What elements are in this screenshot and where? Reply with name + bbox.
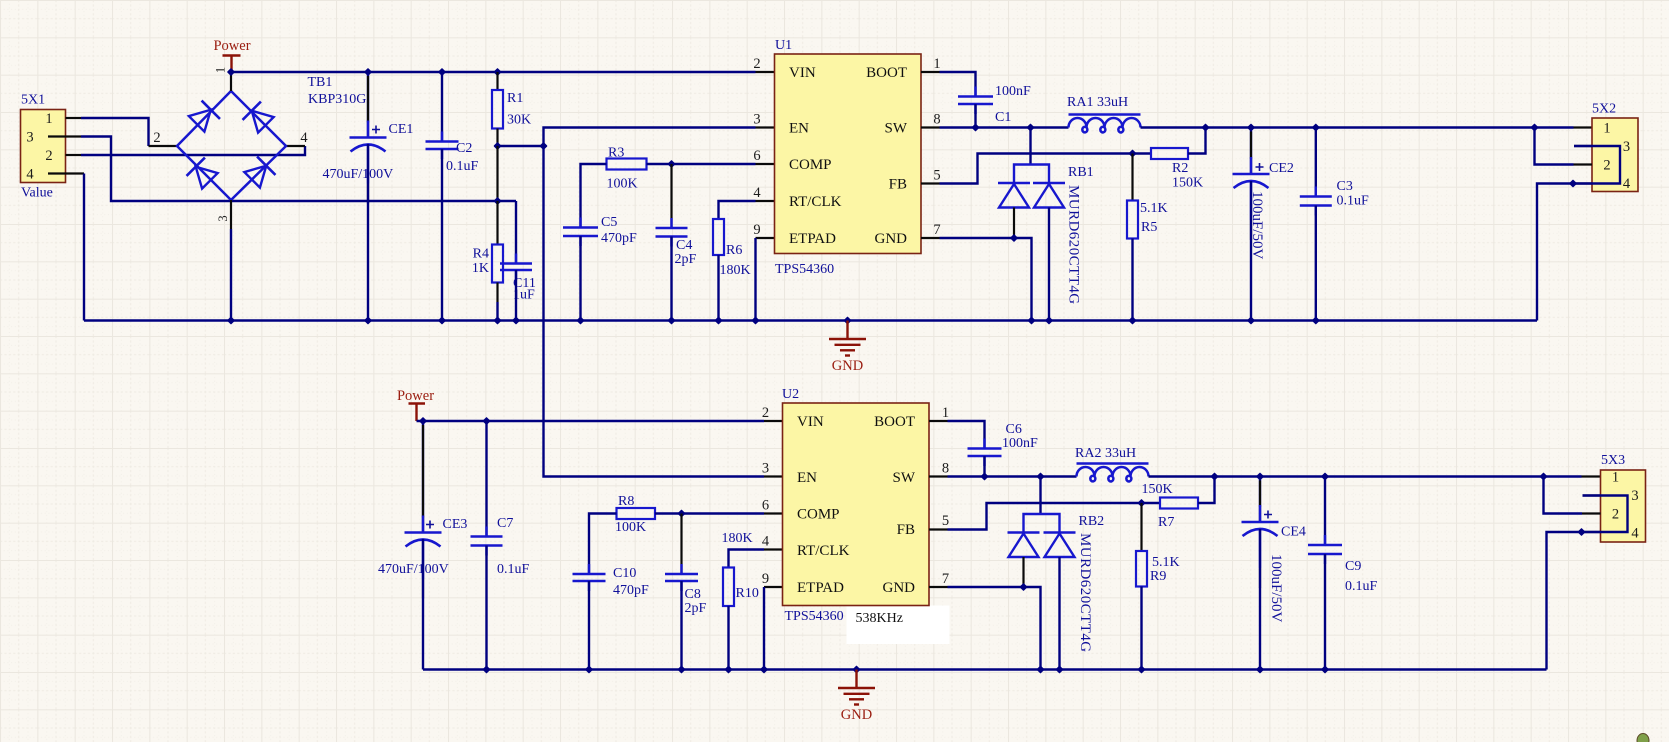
- pin R5.1: [1131, 154, 1133, 201]
- dual diode RB2 bracket: [1024, 514, 1060, 533]
- junction ground rail 2 / CE4: [1256, 665, 1264, 673]
- polarized capacitor plates CE1: [350, 136, 387, 139]
- wire VOUT2 to CE4: [1259, 477, 1261, 523]
- junction ground rail / TB1.3: [227, 316, 235, 324]
- pin R4.1: [496, 201, 498, 245]
- svg-text:C7: C7: [497, 516, 513, 531]
- resistor body R3: [607, 159, 647, 170]
- junction FB2/R9: [1137, 499, 1145, 507]
- svg-text:1: 1: [1612, 470, 1619, 486]
- svg-text:3: 3: [26, 130, 33, 146]
- svg-text:C1: C1: [995, 110, 1011, 125]
- junction VOUT2/C9: [1321, 472, 1329, 480]
- junction ground rail / U1 GND: [1027, 316, 1035, 324]
- svg-text:CE4: CE4: [1281, 525, 1306, 540]
- CE2 plus sign: [1256, 163, 1264, 171]
- wire R5 to ground rail: [1131, 239, 1133, 321]
- junction ground rail 2 / RB2: [1055, 665, 1063, 673]
- svg-text:C2: C2: [456, 141, 472, 156]
- svg-text:ETPAD: ETPAD: [789, 231, 836, 247]
- svg-text:3: 3: [216, 215, 230, 221]
- junction VOUT/C3: [1312, 123, 1320, 131]
- svg-text:470pF: 470pF: [601, 231, 637, 246]
- svg-text:RB1: RB1: [1068, 165, 1094, 180]
- pin U2.4 RT/CLK: [764, 548, 783, 550]
- wire VOUT to C3: [1315, 128, 1317, 197]
- junction ground rail 2 / R10: [724, 665, 732, 673]
- svg-text:5: 5: [933, 168, 940, 184]
- connector 5X2: [1592, 118, 1638, 192]
- junction ground rail / R5: [1128, 316, 1136, 324]
- pin 5X3.3: [1583, 494, 1601, 496]
- junction ground rail 2 / ETPAD2: [760, 665, 768, 673]
- junction FB/R5: [1128, 149, 1136, 157]
- inductor body RA2: [1077, 467, 1149, 481]
- svg-text:C6: C6: [1006, 422, 1022, 437]
- capacitor plates C11: [500, 264, 532, 271]
- wire R7 to VOUT2 rail: [1198, 477, 1215, 504]
- op-amp U1 body (TPS54360): [775, 54, 922, 254]
- pin 5X3.1: [1582, 475, 1601, 477]
- svg-text:C3: C3: [1337, 179, 1353, 194]
- pin U2.6 COMP: [764, 512, 783, 514]
- svg-text:5X3: 5X3: [1601, 453, 1625, 468]
- wire C2 to ground rail: [441, 149, 443, 321]
- junction rail to CE1: [364, 68, 372, 76]
- svg-text:3: 3: [1631, 488, 1638, 504]
- power symbol Power (top): [223, 56, 241, 73]
- resistor body R1: [492, 90, 503, 129]
- svg-text:MURD620CTT4G: MURD620CTT4G: [1077, 533, 1093, 653]
- wire COMP to C4: [670, 164, 672, 228]
- junction ground rail / C11: [512, 316, 520, 324]
- svg-text:3: 3: [753, 112, 760, 128]
- svg-text:Value: Value: [21, 186, 53, 201]
- wire C3 to ground rail: [1315, 206, 1317, 321]
- wire R10 to ground rail: [727, 606, 729, 670]
- junction SW/RB1: [1026, 123, 1034, 131]
- pin U2.9 ETPAD: [764, 586, 783, 588]
- wire C1 to SW rail: [974, 104, 976, 128]
- svg-text:CE1: CE1: [389, 122, 414, 137]
- svg-text:TB1: TB1: [308, 75, 333, 90]
- svg-text:4: 4: [1623, 176, 1631, 192]
- svg-text:7: 7: [942, 571, 949, 587]
- pin 5X2.1: [1574, 126, 1593, 128]
- junction ground rail / GND symbol: [843, 316, 851, 324]
- junction R1/EN: [493, 142, 501, 150]
- svg-text:C9: C9: [1345, 559, 1361, 574]
- svg-text:Power: Power: [397, 388, 434, 404]
- junction ground rail / ETPAD: [751, 316, 759, 324]
- svg-text:3: 3: [762, 461, 769, 477]
- svg-text:CE3: CE3: [443, 517, 468, 532]
- wire CE4 to ground rail: [1259, 529, 1261, 670]
- svg-text:1: 1: [933, 56, 940, 72]
- svg-text:4: 4: [1631, 526, 1639, 542]
- wire R1 to EN node: [498, 145, 544, 147]
- power symbol Power (bottom): [409, 404, 426, 422]
- junction ground rail / R6: [714, 316, 722, 324]
- wire VOUT rail right of RA2: [1149, 475, 1582, 477]
- junction 5X3.4: [1577, 528, 1585, 536]
- ground GND (bottom): [838, 670, 875, 705]
- pin 5X1.1: [66, 117, 82, 119]
- pin 5X2.3: [1574, 145, 1592, 147]
- resistor body R4: [492, 245, 503, 283]
- wire R9 to ground rail: [1140, 587, 1142, 670]
- svg-text:5.1K: 5.1K: [1140, 201, 1168, 216]
- wire BOOT to C6: [948, 421, 985, 449]
- wire R3 to C5: [581, 164, 607, 228]
- wire SW to RB1 bracket: [1029, 128, 1031, 165]
- svg-text:150K: 150K: [1172, 176, 1203, 191]
- pin R4.2: [496, 283, 498, 303]
- svg-text:R7: R7: [1158, 515, 1174, 530]
- capacitor plates C8: [665, 574, 698, 581]
- svg-text:1: 1: [1603, 121, 1610, 137]
- junction ground rail / C3: [1312, 316, 1320, 324]
- svg-text:TPS54360: TPS54360: [775, 262, 834, 277]
- svg-text:RT/CLK: RT/CLK: [797, 543, 850, 559]
- wire SW2 to RB2 bracket: [1039, 477, 1041, 515]
- svg-text:GND: GND: [841, 707, 872, 723]
- junction SW2/RB2: [1036, 472, 1044, 480]
- svg-text:2: 2: [762, 405, 769, 421]
- wire R4 to ground rail: [496, 302, 498, 321]
- wire VOUT rail right of RA1: [1141, 126, 1574, 128]
- wire R2 to VOUT rail: [1188, 128, 1206, 154]
- junction VOUT/R2: [1201, 123, 1209, 131]
- svg-text:U1: U1: [775, 38, 792, 53]
- svg-text:5X1: 5X1: [21, 93, 45, 108]
- pin 5X3.2: [1582, 512, 1601, 514]
- wire CE3 to ground rail: [422, 539, 424, 670]
- svg-text:RB2: RB2: [1079, 514, 1105, 529]
- junction rail to R1: [493, 68, 501, 76]
- capacitor plates C2: [426, 142, 459, 150]
- wire C5 to ground rail: [579, 236, 581, 321]
- wire rail to CE3: [422, 421, 424, 533]
- junction VOUT/CE2: [1247, 123, 1255, 131]
- svg-text:5: 5: [942, 513, 949, 529]
- svg-text:3: 3: [1623, 139, 1630, 155]
- svg-text:100K: 100K: [615, 520, 646, 535]
- svg-text:1: 1: [45, 111, 52, 127]
- svg-text:180K: 180K: [722, 531, 753, 546]
- svg-text:MURD620CTT4G: MURD620CTT4G: [1066, 185, 1082, 305]
- wire RB2 left anode to GND wire: [1022, 557, 1024, 587]
- wire C10 to ground rail: [588, 581, 590, 670]
- svg-text:0.1uF: 0.1uF: [1345, 579, 1378, 594]
- wire C4 to ground rail: [670, 237, 672, 321]
- polarized capacitor plates CE4: [1242, 521, 1279, 524]
- CE1 plus sign: [372, 126, 380, 134]
- wire ETPAD to ground rail (bottom): [763, 587, 765, 670]
- svg-text:EN: EN: [789, 121, 809, 137]
- junction COMP/C4: [667, 160, 675, 168]
- svg-text:SW: SW: [893, 470, 916, 486]
- wire U1 GND to ground rail: [940, 238, 1032, 321]
- wire AC line to C11: [515, 201, 517, 264]
- svg-text:0.1uF: 0.1uF: [497, 562, 530, 577]
- svg-text:5.1K: 5.1K: [1152, 555, 1180, 570]
- junction ground rail 2 / GND symbol: [852, 665, 860, 673]
- junction SW2/C6: [980, 472, 988, 480]
- svg-text:R1: R1: [507, 91, 523, 106]
- junction GND2/RB2: [1019, 583, 1027, 591]
- svg-text:CE2: CE2: [1269, 161, 1294, 176]
- svg-text:EN: EN: [797, 470, 817, 486]
- junction ground rail 2 / C10: [585, 665, 593, 673]
- pin U1.2 VIN: [756, 71, 775, 73]
- junction ground rail 2 / C8: [677, 665, 685, 673]
- pin R1.1: [496, 72, 498, 90]
- capacitor plates C3: [1300, 197, 1332, 206]
- capacitor plates C7: [471, 537, 503, 546]
- pin U2.5 FB: [929, 528, 948, 530]
- svg-text:GND: GND: [883, 580, 916, 596]
- svg-text:100nF: 100nF: [995, 84, 1031, 99]
- diode RB1 right: [1033, 182, 1065, 185]
- pin U1.1 BOOT: [921, 71, 940, 73]
- svg-text:4: 4: [26, 167, 34, 183]
- svg-text:470uF/100V: 470uF/100V: [378, 562, 449, 577]
- svg-text:R6: R6: [726, 243, 742, 258]
- svg-text:1K: 1K: [472, 261, 489, 276]
- junction VOUT/5X2: [1530, 123, 1538, 131]
- svg-text:RA1 33uH: RA1 33uH: [1067, 95, 1128, 110]
- wire 5X1.3 to TB1.3 and C11: [81, 137, 516, 202]
- svg-text:VIN: VIN: [797, 414, 824, 430]
- pin U2.1 BOOT: [929, 420, 948, 422]
- pin TB1.4: [286, 145, 305, 147]
- wire TB1.3 to ground rail: [230, 229, 232, 321]
- diode TB1 top-right: [243, 102, 276, 135]
- svg-text:ETPAD: ETPAD: [797, 580, 844, 596]
- svg-text:FB: FB: [897, 522, 915, 538]
- svg-text:2: 2: [1612, 507, 1619, 523]
- junction ground rail / R4: [493, 316, 501, 324]
- svg-text:5X2: 5X2: [1592, 102, 1616, 117]
- capacitor plates C1: [958, 97, 993, 105]
- junction VOUT2/R7: [1210, 472, 1218, 480]
- svg-text:RT/CLK: RT/CLK: [789, 194, 842, 210]
- svg-text:100uF/50V: 100uF/50V: [1268, 554, 1284, 623]
- wire CE1 to ground rail: [367, 144, 369, 321]
- svg-text:100nF: 100nF: [1002, 436, 1038, 451]
- wire R1 to R4 column: [496, 146, 498, 201]
- svg-text:R4: R4: [473, 247, 489, 262]
- wire rail to C2: [441, 72, 443, 142]
- junction VOUT2/5X3: [1539, 472, 1547, 480]
- resistor body R6: [713, 219, 724, 255]
- svg-text:C8: C8: [685, 587, 701, 602]
- svg-text:SW: SW: [885, 121, 908, 137]
- svg-text:2pF: 2pF: [675, 252, 697, 267]
- pin U2.2 VIN: [764, 420, 783, 422]
- wire VOUT2 to 5X3.2: [1544, 477, 1583, 514]
- wire C7 to ground rail: [485, 546, 487, 670]
- svg-text:7: 7: [933, 222, 940, 238]
- pin U1.6 COMP: [756, 163, 775, 165]
- junction ground rail / CE1: [364, 316, 372, 324]
- wire SW rail left of RA1: [940, 126, 1069, 128]
- svg-text:8: 8: [933, 112, 940, 128]
- inductor body RA1: [1069, 118, 1141, 132]
- svg-text:8: 8: [942, 461, 949, 477]
- diode TB1 bottom-left: [187, 158, 220, 191]
- svg-text:C5: C5: [601, 215, 617, 230]
- junction 5X2.4: [1569, 179, 1577, 187]
- connector 5X1: [21, 110, 66, 183]
- capacitor plates C10: [573, 574, 606, 581]
- wire BOOT to C1: [940, 72, 976, 97]
- svg-text:4: 4: [300, 130, 308, 146]
- polarized capacitor plates CE2: [1233, 173, 1270, 176]
- junction SW/C1: [971, 123, 979, 131]
- wire VOUT2 to C9: [1324, 477, 1326, 546]
- pin TB1.3: [230, 200, 232, 229]
- junction R4/AC line: [493, 197, 501, 205]
- svg-text:2: 2: [753, 56, 760, 72]
- diode RB2 right: [1044, 531, 1076, 534]
- resistor body R10: [723, 568, 734, 607]
- junction COMP/C8: [677, 509, 685, 517]
- diode TB1 bottom-right: [243, 157, 276, 190]
- svg-text:9: 9: [762, 571, 769, 587]
- diode RB1 left: [998, 182, 1030, 185]
- wire COMP net: [647, 163, 756, 165]
- svg-text:2: 2: [1603, 158, 1610, 174]
- svg-text:0.1uF: 0.1uF: [1337, 194, 1370, 209]
- wire COMP to C8: [680, 514, 682, 575]
- wire R6 to ground rail: [717, 255, 719, 321]
- wire 5X1.2 to TB1.4: [81, 146, 305, 155]
- svg-text:2pF: 2pF: [685, 601, 707, 616]
- wire EN node down to U2.EN: [544, 146, 765, 477]
- svg-text:R10: R10: [736, 586, 759, 601]
- junction EN branch: [539, 142, 547, 150]
- svg-text:C10: C10: [613, 566, 636, 581]
- wire VIN top rail: [231, 71, 756, 73]
- svg-text:2: 2: [45, 148, 52, 164]
- wire rail to C7: [485, 421, 487, 537]
- junction VOUT2/CE4: [1256, 472, 1264, 480]
- wire FB net (bottom): [948, 503, 1161, 530]
- svg-text:R9: R9: [1150, 569, 1166, 584]
- pin TB1.1: [230, 72, 232, 91]
- connector 5X3: [1601, 470, 1646, 542]
- wire SW rail left of RA2: [948, 475, 1077, 477]
- svg-text:BOOT: BOOT: [866, 65, 907, 81]
- junction ground rail / CE2: [1247, 316, 1255, 324]
- svg-text:GND: GND: [832, 358, 863, 374]
- wire CE2 to ground rail: [1250, 181, 1252, 321]
- svg-text:Power: Power: [213, 38, 250, 54]
- junction rail/C7: [482, 417, 490, 425]
- pin U2.7 GND: [929, 586, 948, 588]
- resistor body R9: [1136, 551, 1147, 587]
- svg-text:R8: R8: [618, 494, 634, 509]
- wire FB net: [940, 154, 1152, 184]
- wire VOUT to CE2: [1250, 128, 1252, 175]
- junction Power/TB1.1/rail: [227, 68, 235, 76]
- svg-text:30K: 30K: [507, 113, 531, 128]
- svg-text:R3: R3: [608, 146, 624, 161]
- svg-text:470pF: 470pF: [613, 583, 649, 598]
- wire 5X1.1 to TB1.2: [81, 118, 149, 146]
- svg-text:1: 1: [942, 405, 949, 421]
- pin 5X1.4: [48, 172, 84, 174]
- junction ground rail 2 / C9: [1321, 665, 1329, 673]
- pin U1.8 SW: [921, 126, 940, 128]
- pin 5X1.2: [66, 154, 82, 156]
- pin U1.7 GND: [921, 237, 940, 239]
- CE4 plus sign: [1264, 511, 1272, 519]
- pin 5X2.2: [1574, 163, 1593, 165]
- svg-text:KBP310G: KBP310G: [308, 92, 366, 107]
- pin U2.8 SW: [929, 475, 948, 477]
- svg-text:U2: U2: [782, 387, 799, 402]
- svg-text:9: 9: [753, 222, 760, 238]
- polarized capacitor plates CE3: [405, 531, 442, 534]
- op-amp U2 body (TPS54360): [783, 403, 930, 606]
- junction ground rail 2 / C7: [482, 665, 490, 673]
- pin U1.5 FB: [921, 182, 940, 184]
- pin U1.3 EN: [756, 126, 775, 128]
- wire VOUT to 5X2.2: [1535, 128, 1574, 165]
- junction ground rail 2 / U2 GND: [1036, 665, 1044, 673]
- wire C11 to ground rail: [515, 270, 517, 321]
- junction GND/RB1: [1010, 234, 1018, 242]
- wire C6 to SW rail: [983, 456, 985, 477]
- svg-text:COMP: COMP: [789, 157, 832, 173]
- wire ETPAD to ground rail: [754, 238, 756, 321]
- svg-text:4: 4: [753, 185, 761, 201]
- ground GND (top): [829, 321, 866, 356]
- svg-text:C4: C4: [676, 238, 692, 253]
- resistor body R5: [1127, 201, 1138, 239]
- svg-text:COMP: COMP: [797, 507, 840, 523]
- wire RB1 left anode to GND wire: [1013, 208, 1015, 239]
- pin R9.1: [1140, 503, 1142, 551]
- svg-text:150K: 150K: [1142, 482, 1173, 497]
- capacitor plates C9: [1308, 545, 1342, 554]
- svg-text:470uF/100V: 470uF/100V: [323, 167, 394, 182]
- junction ground rail / C4: [667, 316, 675, 324]
- white backdrop patch under U2: [847, 606, 950, 645]
- wire R8 to C10: [589, 514, 617, 575]
- resistor body R2: [1151, 148, 1188, 159]
- resistor body R8: [617, 508, 656, 519]
- svg-text:GND: GND: [875, 231, 908, 247]
- wire rail to CE1: [367, 72, 369, 138]
- svg-text:TPS54360: TPS54360: [785, 609, 844, 624]
- svg-text:100K: 100K: [607, 177, 638, 192]
- junction ground rail / C2: [438, 316, 446, 324]
- svg-text:VIN: VIN: [789, 65, 816, 81]
- diode TB1 top-left: [187, 101, 220, 134]
- svg-text:BOOT: BOOT: [874, 414, 915, 430]
- junction ground rail / RB1: [1045, 316, 1053, 324]
- bridge rectifier TB1 outline: [177, 91, 286, 200]
- svg-text:4: 4: [762, 534, 770, 550]
- pin R1.2: [496, 129, 498, 147]
- wire EN node to U1.EN: [544, 128, 756, 147]
- pin 5X3.4: [1582, 531, 1601, 533]
- capacitor plates C5: [563, 228, 598, 237]
